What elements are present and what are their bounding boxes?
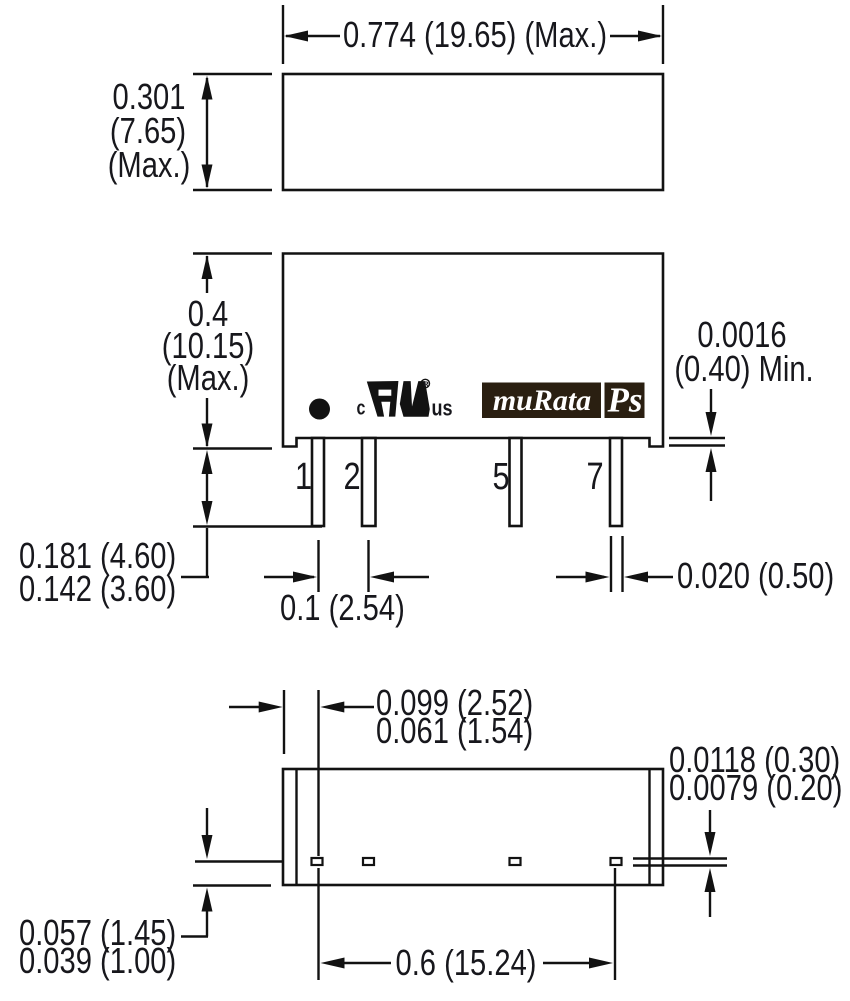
svg-text:muRata: muRata: [493, 384, 591, 417]
svg-text:2: 2: [343, 456, 360, 498]
svg-text:0.1 (2.54): 0.1 (2.54): [280, 587, 405, 628]
svg-text:0.0079 (0.20): 0.0079 (0.20): [669, 767, 842, 808]
bottom view package outline: [283, 769, 663, 885]
svg-text:0.142 (3.60): 0.142 (3.60): [19, 568, 176, 609]
svg-text:(Max.): (Max.): [108, 144, 191, 185]
svg-text:0.061 (1.54): 0.061 (1.54): [376, 710, 533, 751]
pad 1: [312, 858, 323, 865]
dimension 0.020 (0.50) pin width: [556, 536, 834, 596]
bottom view right foot line: [648, 770, 650, 884]
svg-text:0.020 (0.50): 0.020 (0.50): [677, 555, 834, 596]
UL recognized component mark cRUus: [357, 379, 453, 421]
pad 2: [363, 858, 374, 865]
dimension 0.057 (1.45) / 0.039 (1.00) pad position: [19, 808, 271, 981]
dimension 0.0118 (0.30) / 0.0079 (0.20) pad thickness: [633, 739, 842, 917]
svg-text:(Max.): (Max.): [167, 357, 250, 398]
dimension 0.6 (15.24) pad span: [319, 868, 616, 983]
dimension 0.301 (7.65) (Max.) height, top view: [108, 74, 272, 190]
pin 1: [312, 438, 324, 526]
pad 5: [510, 858, 521, 865]
dimension 0.099 (2.52) / 0.061 (1.54) pad offset: [229, 682, 533, 856]
dimension 0.0016 (0.40) Min. standoff height: [669, 314, 814, 501]
svg-text:R: R: [423, 379, 429, 388]
top view package outline: [283, 74, 663, 190]
svg-text:1: 1: [295, 456, 312, 498]
svg-text:us: us: [432, 397, 453, 421]
pad line left extension: [195, 860, 282, 862]
dimension 0.1 (2.54) pin pitch: [264, 540, 429, 628]
svg-text:7: 7: [586, 456, 603, 498]
pin 7: [610, 438, 622, 526]
svg-text:(0.40) Min.: (0.40) Min.: [674, 348, 813, 389]
pad 7: [611, 858, 622, 865]
pin-1 index dot: [309, 399, 330, 420]
svg-text:Ps: Ps: [607, 381, 643, 420]
svg-text:c: c: [357, 397, 366, 419]
dimension 0.4 (10.15) (Max.) case height, front view: [162, 254, 272, 449]
front view package outline with standoff feet: [283, 254, 663, 447]
pin 2: [362, 438, 376, 526]
muRata Ps logo: [482, 381, 645, 420]
dimension 0.774 (19.65) (Max.) width, top view: [283, 5, 663, 64]
dimension 0.181 (4.60) / 0.142 (3.60) pin length: [19, 450, 322, 609]
bottom view left foot line: [295, 770, 297, 884]
pin 5: [510, 438, 522, 526]
svg-text:0.6 (15.24): 0.6 (15.24): [395, 942, 536, 983]
svg-text:0.039 (1.00): 0.039 (1.00): [19, 940, 176, 981]
svg-text:5: 5: [492, 456, 509, 498]
svg-text:0.774 (19.65) (Max.): 0.774 (19.65) (Max.): [343, 14, 607, 55]
